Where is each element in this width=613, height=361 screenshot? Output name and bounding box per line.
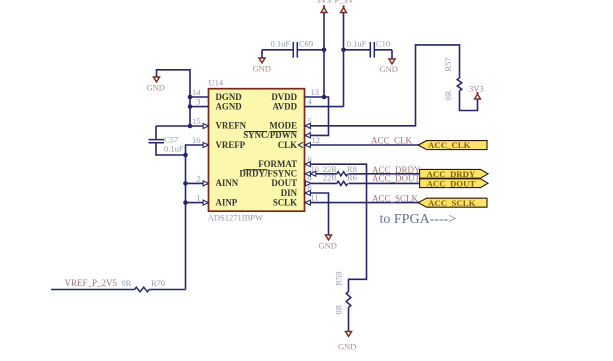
ground (R59) [345,332,351,337]
svg-text:12: 12 [312,135,321,145]
svg-text:R6: R6 [347,173,357,183]
resistor R8 22R [337,172,348,176]
pin arrow DIN [305,191,310,196]
wire DIN net to ground [305,193,329,235]
svg-text:ACC_SCLK: ACC_SCLK [372,193,419,203]
svg-text:13: 13 [311,87,320,97]
svg-text:FORMAT: FORMAT [258,159,297,169]
svg-text:C69: C69 [299,39,313,49]
wire DOUT net [305,182,337,184]
pin arrow VREFP [203,143,208,148]
svg-text:ACC_SCLK: ACC_SCLK [428,198,476,208]
svg-text:GND: GND [253,64,271,74]
node: junction dots on GND bus [188,95,193,100]
svg-text:VREFN: VREFN [216,121,247,131]
svg-text:DOUT: DOUT [271,178,297,188]
svg-text:VREFP: VREFP [216,140,246,150]
ground (C69) [259,58,265,63]
svg-text:GND: GND [147,83,165,93]
svg-text:GND: GND [380,64,398,74]
wire: main left vertical bus [185,155,187,290]
svg-text:AGND: AGND [216,101,242,111]
svg-text:15: 15 [192,116,201,126]
pin arrow SCLK [305,200,310,205]
svg-text:0R: 0R [443,90,453,100]
capacitor C57 [149,140,165,143]
wire pin 14 [190,96,209,98]
port ACC_SCLK [418,198,487,207]
svg-text:DIN: DIN [281,188,298,198]
port ACC_CLK [418,141,487,150]
IC U14 ADS1271IBPW body [209,89,305,212]
svg-text:11: 11 [311,193,319,203]
pin arrow SYNC/PDWN [305,133,310,138]
ground (DIN) [325,235,331,240]
ground (C10) [389,59,395,64]
svg-text:R59: R59 [334,271,344,285]
svg-text:16: 16 [192,135,201,145]
svg-text:ACC_DOUT: ACC_DOUT [427,178,476,188]
pin arrow VREFN (input) [203,124,208,129]
resistor R59 [346,292,351,308]
pin arrows DRDY/FSYNC (double) [305,171,310,176]
wire: C57 bottom to junction [156,143,186,155]
wire MODE net to R57 [305,45,460,126]
svg-text:14: 14 [192,87,201,97]
resistor R6 22R [337,181,348,185]
svg-text:P_3V: P_3V [335,0,355,5]
svg-text:ADS1271IBPW: ADS1271IBPW [208,212,263,222]
svg-text:to FPGA---->: to FPGA----> [380,212,457,227]
capacitor C69 [262,49,293,51]
wire pin 4 AVDD to P_3V rail [305,106,344,108]
svg-text:0R: 0R [334,304,344,314]
node junction at C57/VREFP [183,153,188,158]
svg-text:R70: R70 [151,278,165,288]
svg-text:3V3: 3V3 [317,0,332,5]
wire: GND to bus top-left [157,70,191,126]
svg-text:VREF_P_2V5: VREF_P_2V5 [65,278,118,288]
pin arrow AINN [203,181,208,186]
svg-text:AVDD: AVDD [273,101,298,111]
svg-text:CLK: CLK [278,140,297,150]
wire pin 3 [190,106,209,108]
svg-text:1: 1 [196,193,200,203]
svg-text:3: 3 [196,97,200,107]
svg-text:SCLK: SCLK [273,197,297,207]
wire: R57 to 3V3 [460,91,478,111]
svg-text:ACC_CLK: ACC_CLK [428,140,471,150]
wire CLK net [305,144,421,146]
wire: down to C57 top [155,126,157,140]
capacitor C10 [344,49,371,51]
resistor R70 [135,287,150,292]
wire: C10 to ground [391,50,393,59]
pin arrow AINP [203,200,208,205]
wire FORMAT net down to R59 [305,164,367,291]
wire 3V3 rail [323,13,325,98]
wire P_3V rail [343,13,345,107]
wire pin 1 AINP [186,202,209,204]
svg-text:DGND: DGND [216,92,242,102]
svg-text:GND: GND [338,342,356,352]
svg-text:C10: C10 [376,39,390,49]
svg-text:AINN: AINN [216,178,239,188]
wire pin 16 VREFP [186,145,209,155]
wire: C69 to ground [261,50,263,58]
port ACC_DOUT [420,179,488,188]
svg-text:GND: GND [319,241,337,251]
wire pin 2 AINN [186,182,209,184]
wire pin 15 VREFN row [156,125,209,127]
svg-text:0.1uF: 0.1uF [271,39,291,49]
svg-text:3V3: 3V3 [469,84,484,94]
port ACC_DRDY [420,169,488,178]
svg-text:ACC_DOUT: ACC_DOUT [372,173,421,183]
svg-text:R57: R57 [443,57,453,71]
svg-text:22R: 22R [323,173,338,183]
svg-text:0.1uF: 0.1uF [164,144,184,154]
pin arrow DOUT (output) [305,181,310,186]
svg-text:0R: 0R [122,278,132,288]
pin arrow CLK with clock chevron [298,142,303,148]
svg-text:U14: U14 [209,78,224,88]
wire: VREF_P_2V5 net [51,289,135,291]
svg-text:AINP: AINP [216,197,238,207]
wire DRDY net [305,173,337,175]
wire: R59 to ground [348,308,350,332]
svg-text:MODE: MODE [269,121,297,131]
wire pin 13 DVDD to 3V3 rail and SYNC riser [305,97,329,135]
pin arrow MODE [305,123,310,128]
wire SCLK net [305,202,421,204]
svg-text:0.1uF: 0.1uF [347,39,367,49]
resistor R57 [457,78,462,91]
ground (top-left) [153,77,159,82]
svg-text:DVDD: DVDD [271,92,297,102]
svg-text:2: 2 [196,173,200,183]
pin arrow FORMAT [305,162,310,167]
svg-text:ACC_CLK: ACC_CLK [371,135,413,145]
